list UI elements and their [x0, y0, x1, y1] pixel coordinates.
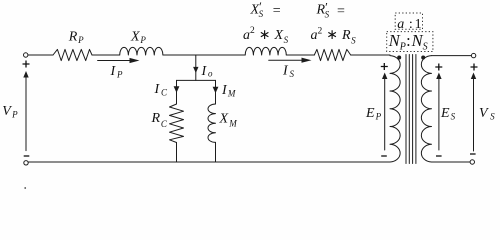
- secondary top wire: [432, 55, 472, 57]
- wire R_P to X_P: [92, 54, 120, 56]
- I_o arrowhead: [193, 67, 198, 73]
- svg-text:a2∗RS: a2∗RS: [311, 27, 357, 46]
- transformer secondary winding: [421, 56, 431, 162]
- transformer core line 3: [412, 55, 414, 164]
- inductor X'_S: [245, 47, 286, 55]
- bottom wire: [28, 161, 390, 163]
- wire X'_S to R'_S: [286, 54, 314, 56]
- wire Rc branch lower: [176, 143, 178, 163]
- E_S voltage arrow shaft: [438, 78, 440, 151]
- plus V_S: [471, 64, 478, 71]
- V_S voltage arrow shaft: [473, 78, 475, 152]
- transformer core line 1: [405, 55, 407, 164]
- terminal top-left: [24, 53, 28, 57]
- wire X_P to X'_S through node: [163, 54, 245, 56]
- wire Rc branch upper: [176, 80, 178, 104]
- I_C arrowhead: [174, 86, 180, 93]
- minus V_P: [24, 155, 30, 157]
- V_P voltage arrow shaft: [25, 76, 27, 151]
- primary polarity dot: [397, 56, 401, 60]
- transformer primary winding: [390, 56, 400, 162]
- inductor X_M: [208, 104, 216, 142]
- minus E_S: [436, 155, 442, 157]
- plus E_S: [435, 64, 442, 71]
- shunt split bar: [177, 79, 216, 81]
- svg-text:NP:NS: NP:NS: [388, 31, 428, 52]
- resistor R_C: [170, 104, 184, 143]
- resistor R'_S: [314, 49, 350, 60]
- I_S arrowhead: [302, 58, 312, 63]
- wire Xm branch lower: [215, 142, 217, 162]
- terminal bottom-left: [24, 161, 28, 165]
- stray speck: [24, 187, 26, 189]
- svg-text:a:1: a:1: [397, 17, 421, 32]
- I_P current arrow shaft: [98, 60, 131, 62]
- wire top left from terminal to R_P: [28, 54, 53, 56]
- minus E_P: [381, 155, 387, 157]
- inductor X_P: [120, 47, 163, 55]
- plus E_P: [381, 63, 388, 70]
- terminal bottom-right: [470, 160, 474, 164]
- wire R'_S to transformer primary: [351, 54, 390, 56]
- dotted box a:1: [395, 13, 422, 29]
- terminal top-right: [471, 53, 475, 57]
- resistor R_P: [53, 49, 92, 60]
- I_S current arrow shaft: [269, 59, 304, 61]
- E_P voltage arrow shaft: [384, 78, 386, 151]
- transformer core line 4: [415, 55, 417, 164]
- V_P arrowhead: [23, 71, 28, 78]
- I_M arrowhead: [213, 87, 219, 94]
- wire Xm branch upper: [215, 80, 217, 104]
- minus V_S: [470, 153, 476, 155]
- E_S arrowhead: [436, 73, 441, 80]
- dotted box Np:Ns: [387, 32, 433, 52]
- transformer core line 2: [408, 55, 410, 164]
- I_P arrowhead: [130, 58, 140, 63]
- V_S arrowhead: [471, 73, 476, 80]
- plus V_P: [23, 61, 30, 68]
- node branch vertical (Io line): [195, 55, 197, 80]
- secondary bottom wire: [432, 161, 471, 163]
- svg-text:a2∗XS: a2∗XS: [243, 26, 289, 45]
- secondary polarity dot: [421, 56, 425, 60]
- E_P arrowhead: [382, 73, 387, 80]
